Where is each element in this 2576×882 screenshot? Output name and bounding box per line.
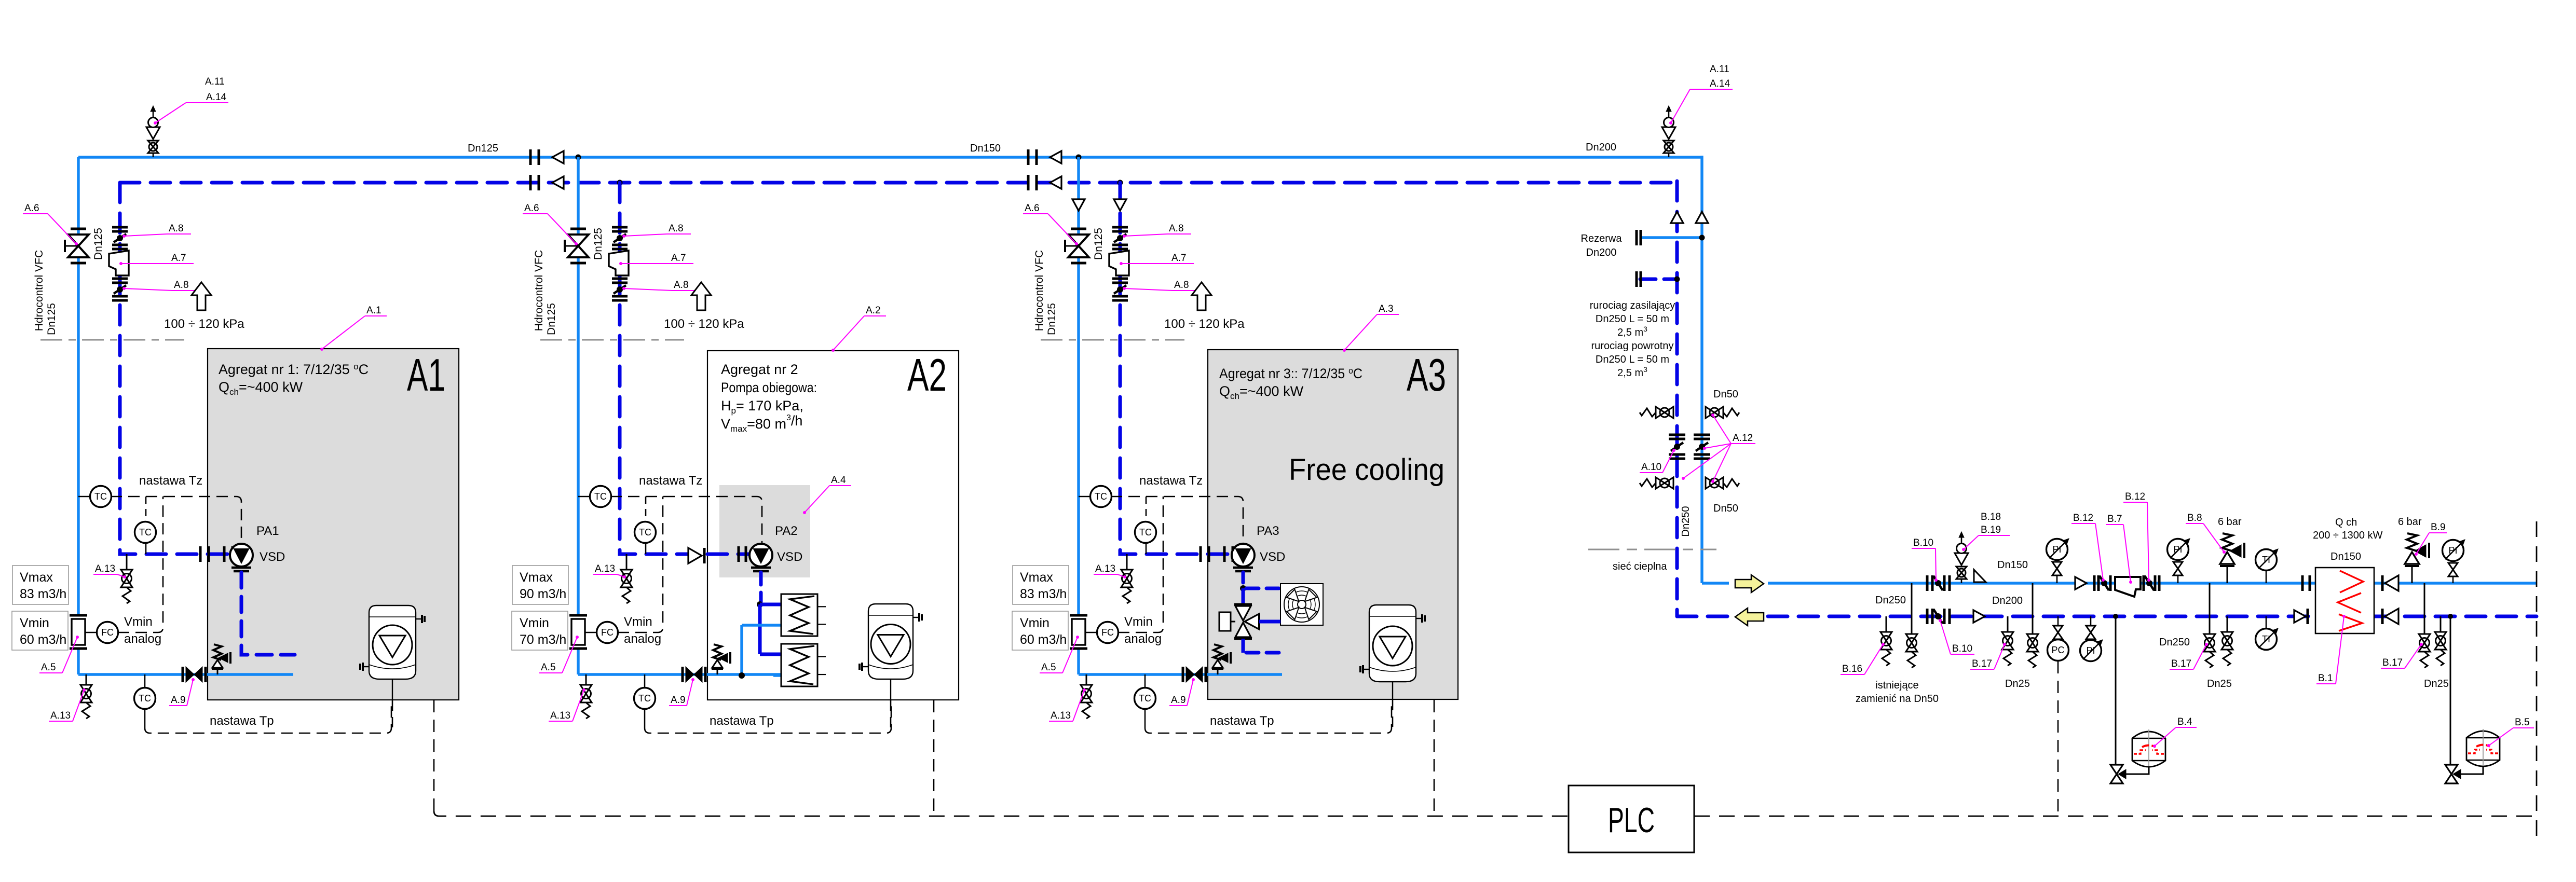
svg-text:A.11: A.11 [1710, 64, 1729, 75]
TI gauge below return [2266, 616, 2267, 628]
TC sensor on supply A3 [1079, 496, 1091, 498]
svg-text:B.17: B.17 [1972, 658, 1992, 669]
drain valve at 3916 [2032, 633, 2034, 635]
svg-text:analog: analog [1124, 632, 1162, 646]
svg-text:analog: analog [624, 632, 661, 646]
control line vessel A1 to Tp [392, 700, 393, 728]
svg-text:Dn125: Dn125 [468, 143, 498, 154]
svg-text:6 bar: 6 bar [2398, 516, 2422, 528]
svg-text:A.6: A.6 [24, 203, 39, 214]
boundary dashed right [2536, 521, 2538, 845]
svg-text:A.5: A.5 [541, 662, 556, 673]
svg-text:Dn25: Dn25 [2005, 678, 2030, 690]
svg-text:PA3: PA3 [1257, 524, 1279, 538]
svg-text:Dn125: Dn125 [46, 303, 58, 335]
svg-text:A.8: A.8 [174, 280, 189, 291]
rezerwa return stub (dashed) [1640, 278, 1677, 281]
relief valve in box A3 [1214, 644, 1222, 660]
wire supply riser A1 [77, 157, 79, 674]
svg-text:A.8: A.8 [1169, 223, 1184, 234]
svg-text:A.8: A.8 [169, 223, 184, 234]
pressure arrow A3 [1192, 282, 1211, 310]
Vmax box A2 [512, 566, 568, 604]
svg-text:TC: TC [594, 491, 607, 502]
drain valve B.17 at 3868 [2007, 616, 2009, 632]
ball valve A.10 left [1669, 434, 1685, 436]
svg-text:VSD: VSD [1260, 550, 1285, 564]
svg-text:Rezerwa: Rezerwa [1581, 233, 1623, 244]
flange pair on supply before A3 [1027, 149, 1030, 165]
valve A.8 upper A3 [1112, 226, 1128, 229]
valve B.10 return [1926, 609, 1929, 624]
wire pump PA1 outlet (dashed) [241, 572, 295, 655]
wire supply right riser [1700, 156, 1703, 583]
svg-text:A.1: A.1 [366, 305, 381, 316]
TC sensor on return A1 [145, 542, 147, 554]
buffer vessel A3 [1369, 605, 1416, 682]
valve B.12 first [2093, 575, 2096, 591]
relief valve in box A1 [213, 644, 222, 660]
svg-text:Dn150: Dn150 [2330, 551, 2361, 562]
svg-text:FC: FC [601, 627, 614, 638]
pump PA1 [230, 544, 253, 567]
svg-text:TC: TC [638, 693, 651, 704]
svg-text:Dn150: Dn150 [1997, 559, 2028, 571]
hose valve A.12 top-right [1706, 407, 1714, 418]
svg-text:Dn125: Dn125 [592, 228, 604, 260]
flange pair supply before B.1 [2301, 575, 2304, 591]
control line nastawa Tp A3 [1145, 700, 1392, 733]
control line Vmin analog A3 [1118, 497, 1163, 632]
wire supply riser to HX1 [740, 625, 743, 676]
svg-text:TC: TC [1095, 491, 1107, 502]
svg-text:PA1: PA1 [256, 524, 279, 538]
pump PA2 [749, 544, 772, 567]
svg-text:B.1: B.1 [2318, 673, 2333, 684]
drain valve at 4291 [2227, 616, 2228, 632]
svg-text:VSD: VSD [260, 550, 285, 564]
expansion line to B.5 [2450, 616, 2451, 765]
wire to HX1 top [760, 603, 781, 607]
svg-text:Dn250: Dn250 [2159, 637, 2190, 648]
svg-text:TC: TC [94, 491, 107, 502]
svg-text:analog: analog [124, 632, 161, 646]
flow limiter A.7 A3 [1109, 251, 1129, 275]
drain valve at 3683 [1911, 633, 1913, 635]
svg-text:A.6: A.6 [1025, 203, 1040, 214]
valve A.8 lower A2 [612, 278, 628, 280]
node B.4 tap [2113, 614, 2118, 619]
svg-text:rurociag zasilający: rurociag zasilający [1590, 300, 1675, 311]
svg-text:VSD: VSD [777, 550, 802, 564]
svg-text:A.13: A.13 [95, 563, 115, 574]
svg-text:70 m3/h: 70 m3/h [520, 632, 566, 647]
TC sensor bottom A1 [144, 674, 146, 688]
wire supply bottom to HX2 [773, 674, 781, 677]
svg-text:A.13: A.13 [1051, 710, 1071, 721]
control line nastawa Tp A2 [645, 700, 891, 733]
control line Vmin analog A2 [618, 497, 663, 632]
PLC stub line A2 [933, 700, 935, 816]
svg-text:A.12: A.12 [1733, 433, 1753, 444]
level line A2 [540, 339, 684, 341]
svg-text:nastawa Tp: nastawa Tp [1210, 714, 1274, 728]
svg-text:Dn25: Dn25 [2424, 678, 2449, 690]
svg-text:B.10: B.10 [1913, 538, 1933, 548]
relief valve B.8 [2227, 566, 2228, 583]
svg-text:90 m3/h: 90 m3/h [520, 587, 566, 601]
svg-text:B.9: B.9 [2431, 522, 2446, 533]
svg-text:Dn125: Dn125 [1046, 303, 1058, 335]
control line nastawa Tz A3 [1111, 497, 1243, 543]
chiller unit box A1 [208, 349, 459, 700]
svg-text:B.17: B.17 [2382, 657, 2403, 668]
node PA3 outlet junction [1240, 585, 1246, 591]
svg-text:FC: FC [101, 627, 114, 638]
flow sensor A.5 A1 [70, 614, 87, 617]
svg-text:A.13: A.13 [50, 710, 71, 721]
svg-text:2,5 m3: 2,5 m3 [1617, 325, 1647, 338]
svg-text:nastawa Tz: nastawa Tz [1139, 474, 1203, 488]
wire return right riser (dashed) [1675, 181, 1679, 616]
svg-text:Vmin: Vmin [1124, 615, 1153, 629]
svg-text:Dn250: Dn250 [1680, 506, 1692, 537]
svg-text:Agregat nr 2: Agregat nr 2 [721, 362, 798, 377]
hose valve A.12 bottom-right [1706, 477, 1714, 489]
svg-text:A.5: A.5 [41, 662, 56, 673]
strainer B.7 [2115, 577, 2141, 597]
svg-text:100 ÷ 120 kPa: 100 ÷ 120 kPa [664, 317, 744, 331]
flow triangle supply before B.12 [2075, 577, 2087, 589]
control bus left [434, 811, 1569, 816]
wire return riser A1 [120, 183, 230, 554]
PI gauge at 4726 [2443, 540, 2464, 561]
svg-text:A.6: A.6 [524, 203, 539, 214]
svg-text:B.12: B.12 [2073, 513, 2093, 523]
flow sensor A.5 A3 [1070, 614, 1087, 617]
svg-text:Hdrocontrol VFC: Hdrocontrol VFC [1033, 250, 1045, 331]
valve A.6 Hydrocontrol VFC A3 [1071, 228, 1086, 230]
control branch to TC2 A3 [1146, 497, 1147, 522]
flow triangle down on return riser A3 [1114, 199, 1126, 211]
svg-text:A.13: A.13 [1095, 563, 1115, 574]
flow triangle up on supply riser [1696, 212, 1708, 223]
svg-text:A.13: A.13 [595, 563, 615, 574]
drain valve B.17 at 4671 [2424, 583, 2425, 634]
drain valve at 4702 [2440, 616, 2442, 632]
svg-text:Vmin: Vmin [520, 616, 549, 630]
control branch to TC2 A1 [145, 497, 147, 522]
svg-text:B.16: B.16 [1842, 664, 1862, 674]
svg-text:Dn200: Dn200 [1586, 142, 1616, 153]
svg-text:6 bar: 6 bar [2218, 516, 2242, 528]
svg-text:Agregat nr 1: 7/12/35 oC: Agregat nr 1: 7/12/35 oC [219, 362, 369, 377]
svg-text:FC: FC [1101, 627, 1114, 638]
check valve on PA2 feed [688, 548, 702, 563]
svg-text:Dn125: Dn125 [92, 228, 104, 260]
svg-text:istniejące: istniejące [1875, 680, 1918, 691]
control line nastawa Tz A1 [111, 497, 241, 543]
valve A.6 Hydrocontrol VFC A1 [71, 228, 86, 230]
svg-text:B.18: B.18 [1981, 512, 2001, 522]
drain valve A.13 lower A1 [86, 674, 87, 685]
node PA2 outlet junction [757, 601, 763, 608]
wire return riser A2 [620, 183, 751, 554]
Vmax box A1 [12, 566, 69, 604]
TC sensor bottom A3 [1144, 674, 1146, 688]
control line nastawa Tp A1 [145, 700, 391, 733]
wire pump PA3 outlet (dashed) [1242, 572, 1245, 586]
svg-text:A3: A3 [1407, 349, 1446, 401]
flange pair on return before A3 [1027, 175, 1030, 190]
check valve return after B.1 [2381, 609, 2384, 624]
svg-text:Dn50: Dn50 [1713, 503, 1738, 514]
TC sensor on return A3 [1146, 542, 1147, 554]
svg-text:PC: PC [2051, 645, 2064, 655]
svg-text:A.10: A.10 [1641, 462, 1661, 473]
PLC box [1569, 785, 1694, 852]
svg-text:A.9: A.9 [671, 695, 686, 706]
valve A.8 lower A3 [1112, 278, 1128, 280]
svg-text:TC: TC [139, 527, 152, 538]
valve A.8 upper A1 [112, 226, 128, 229]
svg-text:B.7: B.7 [2107, 514, 2122, 525]
pump PA1 feed flanges [199, 546, 202, 562]
vessel A1 bottom stem [392, 679, 393, 700]
PI gauge on supply at 4196 [2168, 539, 2189, 560]
wire pump PA2 outlet (dashed) [759, 572, 763, 602]
Vmin box A1 [12, 611, 68, 650]
Vmax box A3 [1013, 566, 1069, 604]
pressure arrow A1 [192, 282, 211, 310]
svg-text:A.7: A.7 [1171, 253, 1187, 264]
level line siec cieplna [1588, 549, 1716, 550]
svg-text:Vmin: Vmin [124, 615, 153, 629]
control line vessel A3 to Tp [1392, 700, 1394, 728]
expansion vessel B.5 [2466, 731, 2500, 766]
free cooling fan coil [1280, 584, 1323, 625]
svg-text:B.5: B.5 [2515, 717, 2530, 728]
wire B return line (dashed) [1677, 615, 2537, 618]
svg-text:Hdrocontrol VFC: Hdrocontrol VFC [33, 250, 45, 331]
wire supply riser A3 [1077, 157, 1080, 674]
svg-text:Dn125: Dn125 [546, 303, 557, 335]
chiller unit box A2 [707, 351, 959, 700]
svg-text:nastawa Tp: nastawa Tp [210, 714, 274, 728]
node supply-A2 [576, 155, 581, 160]
svg-text:TC: TC [139, 693, 151, 704]
svg-text:A.13: A.13 [550, 710, 570, 721]
svg-text:B.19: B.19 [1981, 525, 2001, 535]
drain valve A.13 upper A2 [626, 554, 628, 570]
svg-text:A.9: A.9 [171, 695, 186, 706]
check valve supply after B.1 [2381, 575, 2384, 591]
Vmin box A3 [1012, 611, 1068, 650]
pump PA2 feed flanges [738, 546, 740, 562]
wire down to 3-way valve [1242, 588, 1245, 604]
wire return riser A3 [1120, 183, 1232, 554]
drain line from supply at 3683 [1911, 583, 1913, 634]
svg-text:PLC: PLC [1608, 801, 1655, 840]
svg-text:A.14: A.14 [1710, 78, 1730, 89]
node return-A3 [1117, 180, 1123, 186]
TC sensor on supply A1 [78, 496, 90, 498]
check triangle on return before A2 [552, 176, 564, 189]
wire supply bottom run A1 [78, 673, 293, 676]
svg-text:B.12: B.12 [2125, 491, 2145, 502]
svg-text:Dn200: Dn200 [1992, 595, 2023, 607]
svg-text:A2: A2 [907, 349, 947, 401]
wire supply to HX1 [742, 624, 781, 626]
relief valve in box A2 [713, 644, 721, 660]
svg-text:A.2: A.2 [866, 305, 881, 316]
svg-text:Pompa obiegowa:: Pompa obiegowa: [721, 380, 817, 395]
control line PC to PLC [2057, 661, 2059, 816]
svg-text:B.8: B.8 [2187, 513, 2202, 523]
hose valve A.12 bottom-left [1656, 477, 1665, 489]
svg-text:A.3: A.3 [1379, 304, 1394, 314]
flow triangle up on return riser [1671, 212, 1683, 223]
expansion line to B.4 [2115, 616, 2117, 766]
svg-text:PA2: PA2 [775, 524, 798, 538]
check triangle on return before A3 [1050, 176, 1061, 189]
drain valve A.13 lower A3 [1086, 674, 1087, 685]
svg-text:A.8: A.8 [1174, 280, 1189, 291]
wire down to HX2 [760, 604, 781, 654]
air vent A.11/A.14 left [153, 140, 154, 157]
valve A.9 A3 [1182, 667, 1184, 682]
TI gauge on supply [2256, 549, 2277, 571]
TC sensor on return A2 [645, 542, 647, 554]
svg-text:Hdrocontrol VFC: Hdrocontrol VFC [533, 250, 545, 331]
chiller unit box A3 (free cooling) [1208, 350, 1458, 699]
hose valve A.12 top-left [1656, 407, 1665, 418]
svg-text:A.11: A.11 [205, 76, 225, 87]
svg-text:83 m3/h: 83 m3/h [20, 587, 66, 601]
valve at B.4 [2110, 765, 2123, 774]
node supply-A3 [1076, 155, 1082, 160]
wire 3-way outlet down [1242, 639, 1245, 653]
node supply HX junction A2 [739, 672, 745, 679]
svg-text:A1: A1 [407, 349, 445, 401]
svg-text:A.5: A.5 [1041, 662, 1056, 673]
wire supply header Dn125/150/200 [78, 156, 1701, 158]
node return-A2 [617, 180, 623, 186]
wire supply riser A2 [577, 157, 579, 674]
control line nastawa Tz A2 [610, 497, 762, 543]
wire supply bottom run A2 [578, 673, 789, 676]
expansion vessel B.4 [2132, 732, 2165, 767]
svg-text:nastawa Tz: nastawa Tz [139, 474, 202, 488]
yellow arrow supply [1735, 575, 1764, 592]
svg-text:A.8: A.8 [674, 280, 689, 291]
heat exchanger B.1 [2315, 568, 2374, 633]
TC sensor bottom A2 [644, 674, 646, 688]
wire B supply line [1702, 582, 2537, 584]
svg-text:2,5 m3: 2,5 m3 [1617, 365, 1647, 379]
svg-text:Free cooling: Free cooling [1289, 453, 1444, 487]
valve A.9 A1 [182, 667, 184, 682]
svg-text:Vmin: Vmin [624, 615, 652, 629]
flow sensor A.5 A2 [569, 614, 587, 617]
air vent A.11/A.14 right [1668, 140, 1670, 157]
control line Vmin analog A1 [118, 497, 163, 632]
flow triangle down on supply riser A3 [1072, 199, 1085, 211]
flange pair on supply before A2 [529, 149, 532, 165]
valve A.8 lower A1 [112, 278, 128, 280]
svg-text:Vmin: Vmin [1020, 616, 1050, 630]
valve at B.5 [2445, 765, 2458, 774]
rezerwa supply stub [1640, 236, 1702, 239]
PLC stub line A3 [1434, 700, 1435, 816]
yellow arrow return [1735, 608, 1764, 626]
svg-text:Vmax: Vmax [520, 570, 553, 585]
svg-text:nastawa Tz: nastawa Tz [639, 474, 702, 488]
wire to fan coil (dashed) [1246, 587, 1280, 590]
drain valve A.13 lower A2 [585, 674, 587, 685]
heat exchanger HX2 in A2 [781, 644, 817, 686]
air vent B.18/B.19 [1961, 566, 1962, 583]
Vmin box A2 [512, 611, 568, 650]
control line vessel A2 to Tp [890, 700, 892, 728]
svg-text:Dn25: Dn25 [2207, 678, 2232, 690]
svg-text:Dn150: Dn150 [970, 143, 1001, 154]
svg-text:TC: TC [1139, 693, 1151, 704]
svg-text:Dn250: Dn250 [1875, 595, 1906, 606]
svg-text:B.17: B.17 [2171, 658, 2191, 669]
svg-text:A.4: A.4 [831, 475, 846, 486]
flange pair on return before A2 [529, 175, 532, 190]
svg-text:Dn125: Dn125 [1093, 228, 1105, 260]
buffer vessel A2 [868, 604, 913, 679]
svg-text:TC: TC [1139, 527, 1152, 538]
buffer vessel A1 [369, 605, 416, 679]
svg-text:TC: TC [639, 527, 651, 538]
svg-text:rurociag powrotny: rurociag powrotny [1591, 340, 1674, 352]
svg-text:B.4: B.4 [2177, 716, 2192, 727]
svg-text:sieć cieplna: sieć cieplna [1613, 561, 1667, 572]
node B.5 tap [2448, 614, 2453, 619]
svg-text:Vmax: Vmax [20, 570, 53, 585]
drain valve A.13 upper A3 [1126, 554, 1128, 570]
level line A1 [40, 339, 184, 341]
svg-text:Vmin: Vmin [20, 616, 49, 630]
svg-text:A.7: A.7 [171, 253, 186, 264]
wire supply bottom run A3 [1079, 673, 1282, 676]
valve B.12 second [2143, 575, 2145, 591]
svg-text:B.10: B.10 [1952, 643, 1972, 654]
node rezerwa return [1674, 277, 1680, 282]
pressure arrow A2 [691, 282, 711, 310]
pump highlight box A.4 in A2 [719, 485, 810, 577]
drain valve B.17 at 4257 [2209, 583, 2211, 634]
FC controller A2 [585, 632, 597, 633]
drain valve B.16 [1886, 616, 1887, 632]
PI gauge below return [2086, 626, 2095, 632]
wire 3-way to fan coil [1259, 620, 1280, 624]
TC sensor on supply A2 [578, 496, 590, 498]
valve A.8 upper A2 [612, 226, 628, 229]
flow limiter A.7 A1 [109, 251, 129, 275]
flow limiter A.7 A2 [609, 251, 629, 275]
relief valve B.9 [2411, 566, 2413, 583]
svg-text:100 ÷ 120 kPa: 100 ÷ 120 kPa [164, 317, 244, 331]
svg-text:60 m3/h: 60 m3/h [1020, 632, 1067, 647]
FC controller A3 [1085, 632, 1097, 633]
flow wedge supply [1974, 570, 1986, 582]
svg-text:Dn250 L = 50 m: Dn250 L = 50 m [1596, 313, 1669, 325]
wire return header (dashed) [120, 181, 1677, 185]
